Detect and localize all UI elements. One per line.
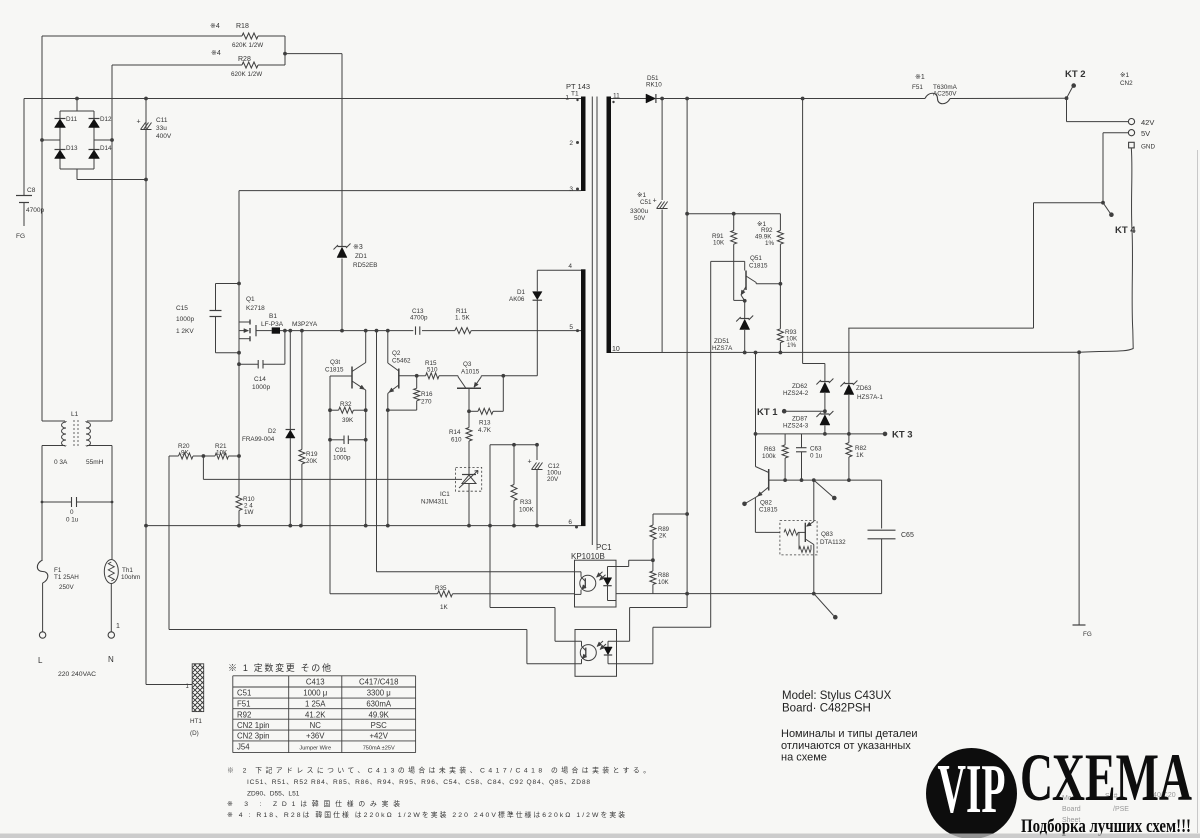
svg-text:GND: GND bbox=[1141, 144, 1155, 151]
svg-text:на схеме: на схеме bbox=[781, 752, 827, 764]
mosfet Q1 K2718 bbox=[239, 296, 272, 341]
node gnd bus bbox=[364, 524, 368, 528]
svg-text:+42V: +42V bbox=[369, 732, 388, 741]
wire rectified HV rail to transformer pin 1 bbox=[24, 98, 581, 100]
node C12 top bbox=[535, 443, 539, 447]
svg-text:C91: C91 bbox=[335, 447, 347, 454]
node R93 gnd bbox=[779, 351, 783, 355]
wire Q83 emitter up bbox=[813, 480, 815, 521]
node Q83 collector on bottom bus bbox=[812, 592, 816, 596]
svg-text:※ 3 : ZD1は韓国仕様のみ実装: ※ 3 : ZD1は韓国仕様のみ実装 bbox=[227, 799, 400, 808]
svg-text:1000p: 1000p bbox=[176, 316, 194, 323]
svg-text:B1: B1 bbox=[269, 313, 277, 320]
diode D2 FRA99-004 bbox=[242, 331, 295, 526]
wire gate drive bus left bbox=[280, 330, 413, 332]
node gnd bus bbox=[512, 524, 516, 528]
node R18/R28 junction bbox=[283, 52, 287, 56]
svg-text:Q2: Q2 bbox=[392, 350, 401, 357]
transistor Q3t C1815 bbox=[325, 331, 366, 390]
wire x687 to bottom bus bbox=[686, 514, 688, 594]
resistor R63 100k bbox=[762, 434, 788, 480]
svg-text:※ 2 下記アドレスについて、C413の場合は未実装、C4: ※ 2 下記アドレスについて、C413の場合は未実装、C417/C418 の場合… bbox=[227, 766, 650, 775]
resistor R13 4.7K bbox=[469, 376, 503, 434]
transistor Q3 A1015 bbox=[457, 361, 503, 388]
node y480 bus bbox=[812, 478, 816, 482]
svg-text:FG: FG bbox=[16, 233, 25, 240]
scan artifact band bbox=[0, 834, 1200, 838]
svg-text:ZD90、D55、L51: ZD90、D55、L51 bbox=[247, 791, 300, 798]
svg-text:F1: F1 bbox=[54, 567, 62, 574]
node rail x687 bbox=[685, 97, 689, 101]
svg-text:1K: 1K bbox=[856, 452, 865, 459]
wire from L line to R18 bbox=[42, 35, 242, 37]
transistor Q82 C1815 bbox=[755, 467, 778, 514]
svg-text:20K: 20K bbox=[306, 458, 318, 465]
svg-text:10ohm: 10ohm bbox=[121, 574, 140, 581]
svg-text:T1 25AH: T1 25AH bbox=[54, 574, 79, 581]
svg-text:RD52EB: RD52EB bbox=[353, 262, 378, 269]
svg-text:1 2KV: 1 2KV bbox=[176, 328, 194, 335]
svg-text:5V: 5V bbox=[1141, 129, 1150, 138]
capacitor C51 3300u 50V bbox=[630, 99, 668, 353]
node ZD51 gnd bbox=[743, 351, 747, 355]
svg-text:1 25A: 1 25A bbox=[305, 700, 326, 709]
ferrite bead B1 LF-P3A bbox=[261, 313, 318, 334]
node gate bus Q2 collector bbox=[386, 329, 390, 333]
svg-text:NJM431L: NJM431L bbox=[421, 499, 448, 506]
zener ZD1 RD52EB bbox=[334, 244, 378, 270]
svg-text:D13: D13 bbox=[66, 145, 78, 152]
node R33 top bbox=[512, 443, 516, 447]
svg-text:CN2 1pin: CN2 1pin bbox=[237, 721, 270, 730]
node C9 right bbox=[364, 438, 368, 442]
wire Q2 emitter column bbox=[387, 394, 389, 526]
transformer core lines bbox=[591, 97, 593, 546]
svg-text:1W: 1W bbox=[244, 509, 254, 516]
resistor R10 2.4 1W bbox=[236, 456, 255, 526]
resistor R18 bbox=[210, 23, 263, 49]
svg-text:J54: J54 bbox=[237, 743, 250, 752]
resistor R33 100K bbox=[511, 445, 535, 526]
connector CN2 42V pin bbox=[1128, 119, 1134, 125]
wire junction to ZD1 column bbox=[285, 53, 342, 55]
svg-text:R18: R18 bbox=[236, 23, 249, 30]
svg-text:620K 1/2W: 620K 1/2W bbox=[232, 42, 263, 49]
svg-text:ZD51: ZD51 bbox=[714, 338, 730, 345]
svg-text:R33: R33 bbox=[520, 499, 532, 506]
svg-text:L: L bbox=[38, 656, 43, 665]
svg-text:0 1u: 0 1u bbox=[810, 453, 823, 460]
connector pin from y480 node bbox=[814, 480, 837, 500]
svg-text:C413: C413 bbox=[306, 677, 325, 686]
svg-text:K2718: K2718 bbox=[246, 305, 265, 312]
svg-text:1%: 1% bbox=[787, 342, 797, 349]
choke L1 bbox=[42, 411, 112, 466]
svg-text:KT 4: KT 4 bbox=[1115, 225, 1136, 236]
connector CN2 5V pin bbox=[1128, 130, 1134, 136]
zener ZD51 HZS7A bbox=[712, 301, 753, 353]
svg-text:AC250V: AC250V bbox=[933, 91, 957, 98]
svg-text:KT 2: KT 2 bbox=[1065, 69, 1086, 80]
svg-text:PC1: PC1 bbox=[596, 543, 612, 552]
transformer secondary bar bbox=[607, 97, 612, 354]
wire to HT1 bbox=[146, 684, 192, 686]
svg-text:R92: R92 bbox=[237, 710, 251, 719]
node C11 top bbox=[144, 97, 148, 101]
wire Q3t emitter column bbox=[365, 390, 367, 526]
terminal N pin 1 bbox=[108, 632, 114, 638]
svg-text:1K: 1K bbox=[440, 604, 449, 611]
connector CN2 GND pin bbox=[1129, 142, 1135, 148]
svg-text:DTA1132: DTA1132 bbox=[820, 539, 846, 546]
node Q2 emitter R16 bbox=[386, 408, 390, 412]
resistor R32 39K bbox=[330, 401, 366, 424]
wire R18 to junction bbox=[258, 35, 285, 37]
resistor R88 10K bbox=[650, 560, 670, 593]
capacitor C14 1000p bbox=[239, 331, 285, 391]
svg-text:R16: R16 bbox=[421, 391, 433, 398]
svg-text:HZS24-3: HZS24-3 bbox=[783, 423, 809, 430]
wire gate bus mid bbox=[422, 330, 455, 332]
transistor Q83 DTA1132 digital bbox=[780, 521, 846, 555]
wire bridge mid stub right bbox=[94, 139, 112, 141]
connector pin from Q82 emitter bbox=[742, 498, 755, 507]
wire KT2 to CN2 42V bbox=[1066, 98, 1068, 121]
node R89 bottom bbox=[651, 558, 655, 562]
node y480 bus bbox=[783, 478, 787, 482]
svg-text:KT 1: KT 1 bbox=[757, 407, 778, 418]
svg-text:IC51、R51、R52 R84、R85、R86、R94、R: IC51、R51、R52 R84、R85、R86、R94、R95、R96、C54… bbox=[247, 779, 590, 786]
node gnd bus bbox=[386, 524, 390, 528]
node KT1 junction bbox=[823, 409, 827, 413]
node Q82 top gnd bbox=[754, 351, 758, 355]
node C9 left bbox=[328, 438, 332, 442]
wire Th1 to N terminal bbox=[110, 584, 112, 632]
wire IC1 ref input bbox=[203, 478, 462, 480]
wire 42V rail drop x687 bbox=[686, 99, 688, 515]
wire aux drop x490 bbox=[489, 445, 491, 608]
svg-text:ZD63: ZD63 bbox=[856, 385, 872, 392]
svg-text:620K 1/2W: 620K 1/2W bbox=[231, 71, 262, 78]
svg-text:C1815: C1815 bbox=[759, 507, 778, 514]
svg-text:6: 6 bbox=[568, 519, 572, 526]
svg-text:T1: T1 bbox=[571, 91, 579, 98]
resistor R92 49.9K 1% bbox=[755, 214, 783, 284]
wire 5V sense bbox=[1103, 132, 1128, 134]
svg-text:630mA: 630mA bbox=[366, 700, 392, 709]
svg-text:ZD62: ZD62 bbox=[792, 383, 808, 390]
svg-text:10K: 10K bbox=[713, 240, 725, 247]
wire L below choke bbox=[41, 446, 43, 561]
wire opto1 collector from x376 bbox=[376, 331, 378, 572]
svg-text:Q1: Q1 bbox=[246, 296, 255, 303]
wire opto bottom bus bbox=[616, 593, 882, 595]
transformer primary bar lower bbox=[581, 269, 586, 526]
transistor Q2 C5462 bbox=[388, 331, 417, 394]
node x687 T to R91 rail bbox=[685, 212, 689, 216]
svg-text:D14: D14 bbox=[100, 145, 112, 152]
node y480 bus bbox=[800, 478, 804, 482]
svg-text:ZD87: ZD87 bbox=[792, 416, 808, 423]
wire R28 left to N line bbox=[112, 64, 242, 66]
capacitor C12 100u 20V bbox=[528, 445, 562, 526]
wire IC1 ref drop bbox=[202, 456, 204, 479]
node gate bus ZD1 bbox=[340, 329, 344, 333]
svg-text:Номиналы и типы деталеи: Номиналы и типы деталеи bbox=[781, 728, 918, 740]
node gnd bus bbox=[237, 524, 241, 528]
wire aux rail to D1 bbox=[503, 375, 537, 377]
svg-text:100k: 100k bbox=[762, 453, 777, 460]
optocoupler PC1 lower bbox=[575, 630, 617, 677]
table parts variants bbox=[233, 676, 416, 753]
capacitor C11 33u 400V bbox=[137, 117, 172, 140]
diode D1 AK06 bbox=[509, 270, 542, 376]
node ZD87 bottom bbox=[823, 432, 827, 436]
svg-text:ZD1: ZD1 bbox=[355, 253, 367, 260]
svg-text:※1: ※1 bbox=[1120, 72, 1129, 79]
svg-text:※ 4 : R18、R28は 韓国仕様 は220kΩ 1/: ※ 4 : R18、R28は 韓国仕様 は220kΩ 1/2Wを実装 220 2… bbox=[227, 810, 625, 819]
svg-text:C8: C8 bbox=[27, 187, 36, 194]
wire secondary ground bus bbox=[611, 351, 1079, 353]
svg-text:750mA ±25V: 750mA ±25V bbox=[363, 746, 395, 752]
svg-text:HZS24-2: HZS24-2 bbox=[783, 390, 809, 397]
svg-text:C65: C65 bbox=[901, 532, 914, 539]
svg-text:+: + bbox=[528, 459, 532, 466]
svg-text:33u: 33u bbox=[156, 125, 167, 132]
svg-text:Q51: Q51 bbox=[750, 255, 762, 262]
wire IC1 anode bbox=[468, 491, 470, 525]
node R21 right bbox=[237, 454, 241, 458]
resistor R89 2K bbox=[650, 514, 687, 560]
node gnd bus bbox=[467, 524, 471, 528]
svg-text:M3P2YA: M3P2YA bbox=[292, 321, 318, 328]
scan artifact right edge bbox=[1197, 150, 1199, 833]
svg-text:СХЕМА: СХЕМА bbox=[1020, 739, 1192, 815]
svg-text:L1: L1 bbox=[71, 411, 79, 418]
node FG drop bbox=[1077, 350, 1081, 354]
fuse F51 T630mA AC250V bbox=[912, 74, 958, 104]
thermistor Th1 10ohm bbox=[104, 560, 140, 584]
svg-text:HZS7A: HZS7A bbox=[712, 345, 733, 352]
svg-text:39K: 39K bbox=[342, 417, 354, 424]
svg-text:9K: 9K bbox=[181, 450, 190, 457]
node y480 bus bbox=[847, 478, 851, 482]
svg-text:R28: R28 bbox=[238, 56, 251, 63]
wire N line vertical bbox=[111, 65, 113, 421]
capacitor C13 4700p bbox=[410, 308, 428, 335]
svg-text:5: 5 bbox=[569, 324, 573, 331]
diode D13 bbox=[55, 145, 79, 159]
svg-text:VIP: VIP bbox=[938, 751, 1006, 828]
node gnd bus bbox=[299, 524, 303, 528]
svg-text:R63: R63 bbox=[764, 446, 776, 453]
ground FG bbox=[1078, 352, 1080, 625]
capacitor C15 1000p 1.2KV bbox=[176, 284, 239, 353]
terminal L bbox=[39, 632, 45, 638]
svg-text:отличаются от указанных: отличаются от указанных bbox=[781, 740, 911, 752]
wire Q82 emitter to Q83 base bbox=[754, 498, 756, 533]
node gnd bus bbox=[144, 524, 148, 528]
svg-text:610: 610 bbox=[451, 437, 462, 444]
resistor R11 1.5K bbox=[455, 308, 471, 334]
zener ZD62 HZS24-2 bbox=[783, 379, 833, 412]
svg-text:R89: R89 bbox=[658, 527, 670, 533]
svg-text:+36V: +36V bbox=[306, 732, 325, 741]
transistor Q51 C1815 bbox=[711, 255, 781, 301]
svg-text:250V: 250V bbox=[59, 584, 75, 591]
svg-text:Q82: Q82 bbox=[760, 500, 772, 507]
svg-text:49.9K: 49.9K bbox=[369, 710, 390, 719]
node gate bus Q3t collector bbox=[364, 329, 368, 333]
resistor R19 20K bbox=[299, 331, 318, 526]
resistor R93 10K 1% bbox=[777, 284, 798, 353]
svg-text:Model: Stylus C43UX: Model: Stylus C43UX bbox=[782, 690, 892, 702]
wire aux rail top bbox=[490, 444, 537, 446]
svg-text:C11: C11 bbox=[156, 117, 168, 124]
wire fuse to KT2 node bbox=[950, 97, 1067, 99]
svg-text:FRA99-004: FRA99-004 bbox=[242, 436, 275, 443]
svg-text:+: + bbox=[137, 119, 141, 126]
node Q3 right y375.8 bbox=[501, 374, 505, 378]
diode D14 bbox=[89, 145, 113, 159]
svg-text:20V: 20V bbox=[547, 476, 559, 483]
wire opto2 emitter from x169 bbox=[169, 629, 527, 631]
svg-text:R14: R14 bbox=[449, 429, 461, 436]
svg-text:D1: D1 bbox=[517, 289, 526, 296]
node bridge top bbox=[75, 97, 79, 101]
node Q51 emitter bbox=[743, 299, 747, 303]
node gate bus x376 bbox=[375, 329, 379, 333]
diode D12 bbox=[89, 116, 113, 128]
wire F1 to L terminal bbox=[42, 583, 44, 632]
node bridge bottom to C11 line bbox=[144, 178, 148, 182]
resistor R91 10K bbox=[712, 214, 745, 301]
svg-text:400V: 400V bbox=[156, 133, 172, 140]
node ZD63 bottom bbox=[847, 432, 851, 436]
test point KT 4 bbox=[1103, 203, 1136, 236]
wire secondary rail pin11 to D51 bbox=[611, 98, 646, 100]
svg-text:4: 4 bbox=[568, 263, 572, 270]
svg-text:F51: F51 bbox=[237, 700, 250, 709]
svg-text:LF-P3A: LF-P3A bbox=[261, 321, 284, 328]
wire GND return wavy bbox=[1079, 148, 1133, 352]
wire opto2 LED anode staircase bbox=[686, 594, 688, 608]
svg-text:Q3t: Q3t bbox=[330, 359, 340, 366]
svg-text:R88: R88 bbox=[658, 573, 670, 579]
svg-text:KT 3: KT 3 bbox=[892, 430, 913, 441]
svg-text:※3: ※3 bbox=[353, 244, 363, 251]
wire bridge mid stub left bbox=[42, 139, 60, 141]
wire rail drop x802 to ZD62 bbox=[802, 99, 804, 364]
svg-text:510: 510 bbox=[427, 367, 438, 374]
shunt regulator IC1 NJM431L bbox=[421, 467, 482, 505]
wire L line vertical bbox=[41, 36, 43, 421]
svg-text:0: 0 bbox=[70, 509, 74, 516]
node R91 top bbox=[732, 212, 736, 216]
svg-text:PSC: PSC bbox=[371, 721, 387, 730]
svg-text:AK06: AK06 bbox=[509, 296, 525, 303]
logo VIP circle bbox=[926, 748, 1017, 838]
resistor R35 1K bbox=[435, 585, 453, 611]
node gnd bus bbox=[288, 524, 292, 528]
wire primary ground vertical C11 bbox=[145, 99, 147, 685]
svg-text:※4: ※4 bbox=[210, 23, 220, 30]
transformer primary bar upper bbox=[581, 97, 586, 192]
svg-text:0 1u: 0 1u bbox=[66, 517, 79, 524]
svg-text:(D): (D) bbox=[190, 730, 199, 737]
resistor R21 10K bbox=[203, 443, 239, 459]
svg-text:Q83: Q83 bbox=[821, 531, 833, 538]
wire R91 R92 feed rail bbox=[687, 213, 780, 215]
svg-text:1000p: 1000p bbox=[252, 384, 270, 391]
node C51 top bbox=[660, 97, 664, 101]
optocoupler PC1 upper bbox=[571, 543, 616, 607]
wire Q3 base drop bbox=[468, 388, 470, 411]
svg-text:3300u: 3300u bbox=[630, 208, 648, 215]
svg-text:C51: C51 bbox=[237, 689, 251, 698]
svg-text:1%: 1% bbox=[765, 240, 775, 247]
wire Q3t base column x330 bbox=[329, 376, 331, 594]
svg-text:HZS7A-1: HZS7A-1 bbox=[857, 394, 883, 401]
capacitor C9 1000p bbox=[330, 436, 366, 462]
svg-text:※1: ※1 bbox=[637, 192, 646, 199]
node x490 on primary gnd bus bbox=[488, 524, 492, 528]
node rail x802 bbox=[801, 97, 805, 101]
wire drain column x=239 bbox=[238, 191, 240, 496]
svg-text:IC1: IC1 bbox=[440, 491, 450, 498]
zener ZD87 HZS24-3 bbox=[783, 411, 833, 434]
svg-text:CN2 3pin: CN2 3pin bbox=[237, 732, 270, 741]
svg-text:N: N bbox=[108, 655, 114, 664]
wire ZD1 column bbox=[341, 54, 343, 246]
svg-text:42V: 42V bbox=[1141, 118, 1154, 127]
svg-text:※4: ※4 bbox=[211, 50, 221, 57]
svg-text:C14: C14 bbox=[254, 376, 266, 383]
wire transformer pin 4 line bbox=[537, 269, 581, 271]
resistor R20 9K bbox=[169, 443, 203, 459]
svg-text:55mH: 55mH bbox=[86, 459, 104, 466]
svg-text:R19: R19 bbox=[306, 451, 318, 458]
svg-text:1000 μ: 1000 μ bbox=[303, 689, 327, 698]
wire R20 left column bbox=[168, 456, 170, 630]
svg-text:A1015: A1015 bbox=[461, 369, 480, 376]
wire feedback bus y480 bbox=[769, 479, 882, 481]
wire opto2 collector from x490 bbox=[490, 607, 555, 609]
node C14 left bbox=[237, 362, 241, 366]
svg-text:F51: F51 bbox=[912, 84, 923, 91]
svg-text:R32: R32 bbox=[340, 401, 352, 408]
node R13 R14 junction bbox=[467, 409, 471, 413]
svg-text:CN2: CN2 bbox=[1120, 80, 1133, 87]
svg-text:Jumper Wire: Jumper Wire bbox=[299, 746, 331, 752]
svg-text:KP1010B: KP1010B bbox=[571, 552, 605, 561]
resistor R82 1K bbox=[846, 434, 867, 480]
svg-text:D11: D11 bbox=[66, 116, 78, 123]
svg-text:R82: R82 bbox=[855, 445, 867, 452]
svg-text:Th1: Th1 bbox=[122, 567, 133, 574]
svg-text:D12: D12 bbox=[100, 116, 112, 123]
wire secondary rail D51 to fuse bbox=[657, 98, 926, 100]
svg-text:+: + bbox=[653, 198, 657, 205]
zener ZD63 HZS7A-1 bbox=[840, 328, 883, 434]
node R32 right bbox=[364, 408, 368, 412]
svg-text:41.2K: 41.2K bbox=[305, 710, 326, 719]
node Q51 collector bbox=[779, 282, 783, 286]
svg-text:C51: C51 bbox=[640, 199, 652, 206]
diode D11 bbox=[55, 116, 78, 128]
node R20 R21 junction bbox=[202, 454, 206, 458]
capacitor C8 4700p bbox=[16, 99, 44, 227]
